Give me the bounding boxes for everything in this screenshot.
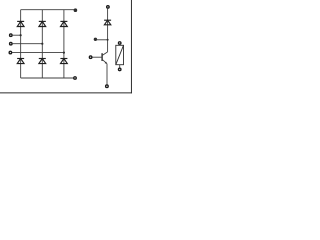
wire bridge leg 2 [41,10,43,78]
junction phase3-leg3 [63,52,65,54]
resistor R1 [116,45,124,64]
terminal L1 [10,34,13,37]
wire emitter [106,64,108,85]
diode D7 [104,20,111,25]
junction phase2-leg2 [41,43,43,45]
wire bridge leg 1 [20,10,22,78]
junction phase1-leg1 [20,34,22,36]
terminal base [89,56,92,59]
terminal L2 [10,42,13,45]
junction tap [107,39,109,41]
diode D2 [60,59,67,64]
wire collector tap [97,39,108,41]
diode D6 [39,59,46,64]
terminal collector top [107,6,110,8]
terminal resistor bottom [118,68,121,71]
wire bridge leg 3 [63,10,65,78]
terminal resistor top [118,42,121,45]
node DC plus [74,8,78,12]
wire top DC bus [21,9,75,11]
terminal emitter [106,85,109,88]
diode D3 [39,21,46,26]
terminal DC minus [74,77,77,80]
diode D1 [17,21,24,26]
diode D4 [17,59,24,64]
wire phase 1 [12,34,20,36]
wire phase 2 [12,43,42,45]
node collector tap [94,38,97,41]
wire bottom DC bus [21,77,74,79]
terminal L3 [9,51,12,54]
wire collector [107,8,109,52]
diode D5 [60,21,67,26]
wire resistor bottom stub [119,65,121,68]
wire resistor top stub [119,43,121,46]
wire phase 3 [12,52,64,54]
transistor Q1 [92,52,108,64]
